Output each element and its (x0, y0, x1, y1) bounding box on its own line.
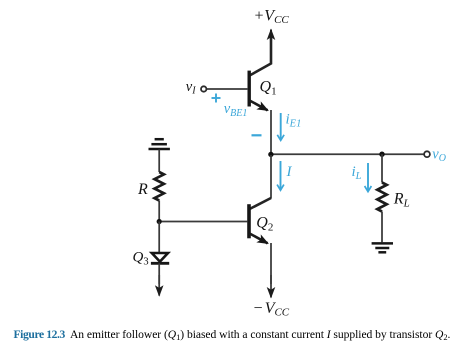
svg-text:Q3: Q3 (133, 250, 149, 268)
svg-text:Q1: Q1 (260, 79, 277, 98)
svg-text:I: I (286, 164, 293, 180)
svg-text:Q2: Q2 (256, 215, 273, 234)
svg-text:−VCC: −VCC (253, 300, 290, 319)
svg-text:+VCC: +VCC (254, 8, 290, 27)
svg-text:R: R (137, 181, 148, 198)
svg-text:vI: vI (186, 79, 196, 97)
svg-text:vBE1: vBE1 (224, 101, 248, 119)
svg-text:iE1: iE1 (286, 112, 302, 130)
svg-text:vO: vO (432, 146, 446, 164)
svg-text:RL: RL (393, 191, 410, 210)
svg-text:iL: iL (352, 164, 362, 182)
